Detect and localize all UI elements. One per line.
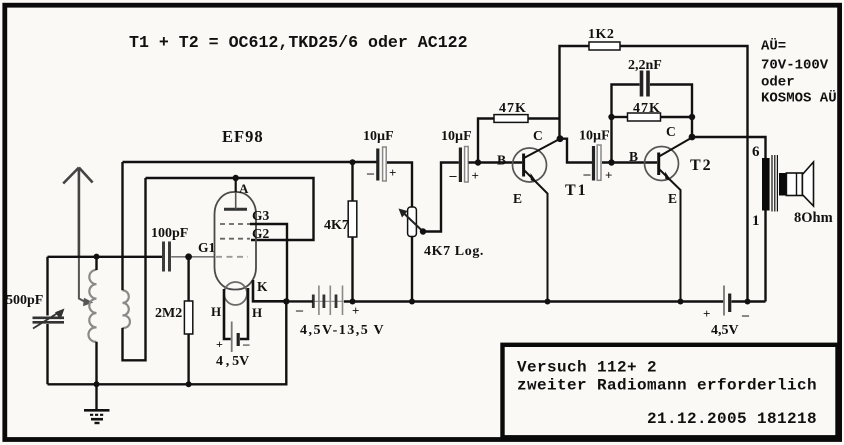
svg-text:EF98: EF98 <box>222 127 264 146</box>
node T1 base junction <box>475 159 481 165</box>
svg-text:4K7 Log.: 4K7 Log. <box>424 244 484 259</box>
svg-text:–: – <box>449 169 458 184</box>
svg-text:B: B <box>497 153 506 168</box>
tube anode plate <box>224 208 247 211</box>
svg-text:4 , 5V: 4 , 5V <box>216 354 249 369</box>
svg-text:4,5V: 4,5V <box>711 323 739 338</box>
svg-text:8Ohm: 8Ohm <box>794 210 833 226</box>
transistor T1 <box>513 139 560 302</box>
svg-text:10µF: 10µF <box>441 129 472 144</box>
svg-text:+: + <box>605 168 612 183</box>
wire 47K-2 right <box>661 116 693 118</box>
svg-text:–: – <box>295 303 304 318</box>
node T2 collector <box>689 134 696 141</box>
wire top anode supply rail <box>123 161 378 163</box>
battery 4,5V-13,5V <box>313 286 344 316</box>
svg-text:G2: G2 <box>252 226 270 241</box>
antenna <box>63 168 92 257</box>
node coil bottom <box>94 381 100 387</box>
wire cap1 to pot <box>387 163 412 208</box>
wire inner line anode/G2 <box>146 178 314 240</box>
capacitor 500pF (variable) <box>33 257 65 385</box>
ground symbol <box>84 384 110 423</box>
svg-text:+: + <box>703 306 710 321</box>
svg-text:T1: T1 <box>565 182 588 199</box>
wire pot wiper to cap2 <box>423 163 459 232</box>
wire cathode K <box>253 280 286 301</box>
wire: gray wire 100pF to tube G1 <box>171 256 215 258</box>
svg-text:–: – <box>741 308 750 323</box>
capacitor 10uF #1 <box>366 147 396 181</box>
wire battery right to trafo <box>732 300 766 302</box>
svg-text:6: 6 <box>752 144 760 160</box>
transformer core lines <box>772 155 777 212</box>
resistor 47K (T2) <box>628 113 661 121</box>
tube EF98 envelope <box>215 192 257 305</box>
svg-text:oder: oder <box>761 75 795 91</box>
svg-text:K: K <box>257 279 268 294</box>
svg-text:+: + <box>472 168 479 183</box>
capacitor 10uF #2 <box>449 147 479 184</box>
svg-text:+: + <box>216 337 223 351</box>
node T2 base junction <box>608 159 614 165</box>
svg-text:zweiter Radiomann erforderlich: zweiter Radiomann erforderlich <box>517 377 817 395</box>
label AU block <box>761 38 837 107</box>
svg-text:G1: G1 <box>198 240 216 255</box>
ground rail bottom left <box>48 301 287 384</box>
speaker 8 Ohm <box>779 162 814 206</box>
wire T1 collector up to 1K2 <box>560 46 590 139</box>
wire: G1 horizontal line <box>48 256 164 258</box>
svg-text:47K: 47K <box>633 101 661 116</box>
svg-text:–: – <box>366 166 375 181</box>
wire G3 to cathode junction <box>250 224 287 301</box>
node pot bottom <box>409 299 415 305</box>
resistor 1K2 <box>589 42 620 50</box>
svg-text:H: H <box>252 305 262 320</box>
wire up to 47K <box>478 119 494 163</box>
node 2M2 bottom <box>186 381 192 387</box>
wire 47K-2 left <box>612 116 628 118</box>
node 1K2 bottom <box>745 299 751 305</box>
svg-text:G3: G3 <box>252 208 270 223</box>
coil L1 (main tuning coil) <box>88 270 96 342</box>
wire anode to inner line <box>235 178 237 192</box>
resistor 2M2 <box>184 257 192 385</box>
svg-text:H: H <box>211 304 221 319</box>
grid G2 dashes <box>220 238 250 240</box>
wire 2,2nF right <box>650 85 692 138</box>
wire up to 47K/2,2nF combo <box>612 85 640 163</box>
node combo right <box>689 114 695 120</box>
svg-text:4K7: 4K7 <box>324 218 349 233</box>
antenna tap wire into coil <box>79 257 93 306</box>
node T1 collector <box>557 135 564 142</box>
svg-text:+: + <box>352 303 359 318</box>
svg-text:+: + <box>389 165 396 180</box>
svg-text:10µF: 10µF <box>363 129 394 144</box>
svg-text:E: E <box>513 191 522 206</box>
svg-text:–: – <box>583 167 592 182</box>
node K junction <box>283 298 289 304</box>
wire 47K right to collector line <box>528 117 560 119</box>
wire pin 1 down <box>764 211 766 302</box>
resistor 47K (T1) <box>494 115 528 123</box>
svg-text:T1 + T2 = OC612,TKD25/6 oder A: T1 + T2 = OC612,TKD25/6 oder AC122 <box>129 33 468 52</box>
svg-text:C: C <box>666 124 676 139</box>
node anode <box>233 175 239 181</box>
node combo left <box>608 114 614 120</box>
svg-text:100pF: 100pF <box>151 226 188 241</box>
main bottom rail <box>286 300 313 302</box>
svg-text:47K: 47K <box>499 101 527 116</box>
svg-text:70V-100V: 70V-100V <box>761 58 829 74</box>
svg-text:T2: T2 <box>690 157 713 174</box>
grid G3 dashes <box>220 223 250 225</box>
capacitor 2,2nF <box>642 71 649 97</box>
node 4K7 bottom <box>350 299 356 305</box>
svg-text:–: – <box>242 336 250 351</box>
node 4K7 top <box>350 159 356 165</box>
wire T1 collector to cap3 <box>560 139 592 163</box>
wire cap3 to T2 base <box>602 161 657 163</box>
node T1 emitter rail <box>545 299 551 305</box>
svg-text:2M2: 2M2 <box>155 306 182 321</box>
svg-text:21.12.2005 181218: 21.12.2005 181218 <box>647 410 817 428</box>
battery 4,5V heater <box>216 322 250 353</box>
node coil top <box>94 254 100 260</box>
battery 4,5V right <box>724 286 730 316</box>
svg-text:4,5V-13,5 V: 4,5V-13,5 V <box>300 323 385 338</box>
node G1 <box>185 253 192 260</box>
svg-text:2,2nF: 2,2nF <box>628 58 662 73</box>
wire T2 collector to transformer pin 6 <box>692 137 766 158</box>
wire cap2 to T1 base <box>469 161 523 163</box>
svg-text:1K2: 1K2 <box>588 27 614 42</box>
coil L2 (feedback coil) <box>123 290 130 328</box>
svg-text:KOSMOS AÜ: KOSMOS AÜ <box>761 90 837 107</box>
transformer AU winding <box>762 158 770 211</box>
tube cathode circle <box>224 282 247 305</box>
svg-text:E: E <box>668 191 677 206</box>
grid G1 dashes <box>216 256 248 258</box>
wire feedback coil top to anode rail <box>121 162 123 290</box>
heater wires H H <box>224 289 231 339</box>
svg-text:500pF: 500pF <box>6 293 43 308</box>
capacitor 100pF <box>164 242 170 272</box>
svg-text:AÜ=: AÜ= <box>761 38 786 55</box>
transistor T2 <box>645 138 693 302</box>
svg-text:A: A <box>239 181 249 196</box>
svg-text:Versuch 112+ 2: Versuch 112+ 2 <box>517 359 657 377</box>
node T2 emitter rail <box>678 299 684 305</box>
potentiometer 4K7 Log <box>399 207 427 302</box>
svg-text:C: C <box>533 128 543 143</box>
wire 1K2 right down to battery minus <box>620 46 748 302</box>
info box <box>503 345 838 438</box>
wire feedback coil bottom loop to G2/anode line <box>123 178 146 360</box>
resistor 4K7 <box>348 163 357 302</box>
capacitor 10uF #3 <box>583 145 613 183</box>
svg-text:10µF: 10µF <box>579 129 610 144</box>
svg-text:B: B <box>629 149 638 164</box>
svg-text:1: 1 <box>752 213 760 229</box>
